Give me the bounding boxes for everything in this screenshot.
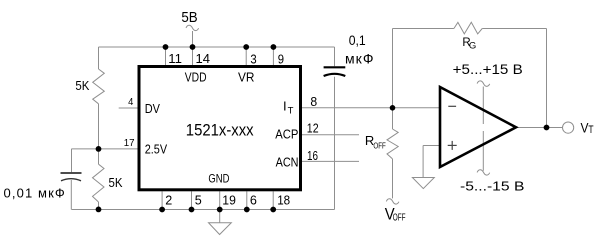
svg-text:DV: DV [145, 101, 160, 116]
svg-text:16: 16 [307, 148, 318, 163]
svg-text:8: 8 [310, 94, 317, 109]
svg-text:+5...+15 В: +5...+15 В [453, 61, 523, 77]
svg-text:5В: 5В [181, 10, 197, 26]
svg-text:2.5V: 2.5V [145, 142, 168, 157]
svg-text:0,01 мкФ: 0,01 мкФ [4, 186, 65, 201]
svg-text:GND: GND [208, 172, 229, 186]
svg-text:5K: 5K [75, 78, 89, 93]
svg-text:OFF: OFF [373, 142, 385, 151]
svg-text:17: 17 [124, 137, 135, 149]
svg-text:VR: VR [238, 70, 255, 85]
svg-text:4: 4 [128, 96, 133, 108]
svg-text:OFF: OFF [393, 213, 406, 224]
svg-text:мкФ: мкФ [345, 51, 374, 67]
svg-text:0,1: 0,1 [349, 32, 366, 48]
svg-text:11: 11 [168, 51, 182, 66]
svg-text:G: G [469, 40, 476, 51]
svg-text:14: 14 [196, 51, 211, 66]
svg-text:-5...-15 В: -5...-15 В [460, 178, 524, 193]
svg-text:I: I [283, 99, 287, 114]
svg-text:1521x-xxx: 1521x-xxx [186, 121, 254, 140]
svg-text:5K: 5K [109, 175, 123, 190]
svg-text:T: T [288, 106, 294, 117]
svg-text:ACN: ACN [276, 155, 299, 170]
svg-text:ACP: ACP [275, 126, 298, 141]
svg-text:12: 12 [307, 121, 319, 136]
svg-text:VDD: VDD [185, 70, 207, 85]
svg-text:18: 18 [277, 192, 290, 207]
svg-text:T: T [588, 124, 593, 136]
svg-text:19: 19 [222, 192, 236, 207]
svg-text:9: 9 [278, 51, 284, 66]
svg-text:3: 3 [250, 51, 256, 66]
svg-text:2: 2 [165, 192, 172, 207]
svg-text:6: 6 [250, 192, 257, 207]
svg-text:5: 5 [195, 192, 202, 207]
